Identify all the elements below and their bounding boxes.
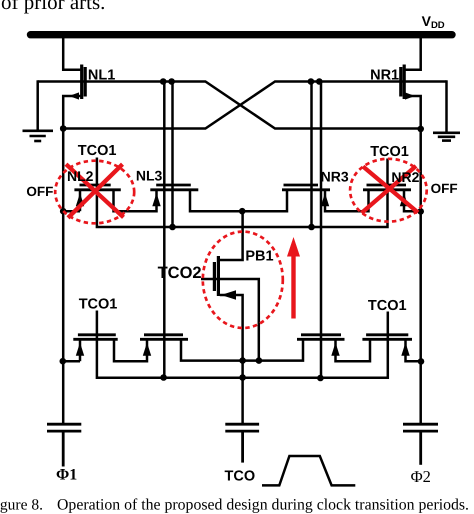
svg-text:NL2: NL2 [67,168,94,184]
svg-text:OFF: OFF [431,181,458,196]
svg-text:TCO1: TCO1 [79,297,118,313]
svg-text:TCO1: TCO1 [368,298,407,314]
svg-text:NR2: NR2 [391,169,419,185]
svg-text:OFF: OFF [26,184,53,199]
svg-text:Figure 8.: Figure 8. [0,497,43,514]
svg-text:of prior arts.: of prior arts. [1,0,105,14]
svg-text:TCO2: TCO2 [158,264,202,282]
svg-text:Φ2: Φ2 [411,467,431,486]
svg-text:PB1: PB1 [245,248,273,264]
svg-text:Operation of the proposed desi: Operation of the proposed design during … [57,497,469,514]
svg-text:Φ1: Φ1 [56,467,77,484]
svg-text:NR1: NR1 [370,68,399,84]
svg-text:NL1: NL1 [88,68,115,84]
svg-text:NL3: NL3 [136,168,163,184]
svg-text:TCO: TCO [225,468,256,484]
svg-text:TCO1: TCO1 [370,144,409,160]
svg-text:VDD: VDD [422,13,445,31]
svg-text:TCO1: TCO1 [78,143,117,159]
svg-text:NR3: NR3 [321,169,349,185]
